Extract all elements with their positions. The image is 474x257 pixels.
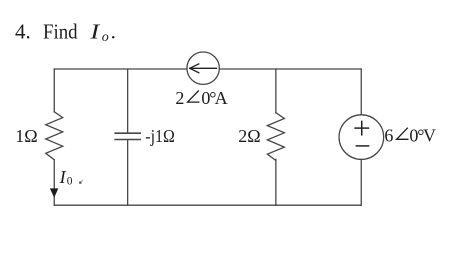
wire resistor R2 lower lead xyxy=(275,159,277,205)
svg-text:2: 2 xyxy=(175,88,184,108)
wire voltage source upper lead xyxy=(360,69,362,115)
wire top-right segment xyxy=(219,68,361,70)
wire resistor R2 upper lead xyxy=(275,69,277,113)
svg-text:1Ω: 1Ω xyxy=(15,126,37,146)
wire left branch lower lead xyxy=(53,160,55,205)
voltage source minus sign xyxy=(356,145,368,147)
svg-text:A: A xyxy=(215,88,228,108)
svg-text:V: V xyxy=(423,125,436,145)
svg-text:I: I xyxy=(89,19,100,43)
svg-text:o: o xyxy=(102,30,109,45)
current source I1 arrow xyxy=(190,67,217,69)
svg-text:4.: 4. xyxy=(15,19,31,43)
svg-text:I: I xyxy=(59,167,67,187)
current arrow I0 (filled) xyxy=(51,189,58,197)
svg-text:Find: Find xyxy=(43,19,78,43)
svg-text:-j1Ω: -j1Ω xyxy=(145,126,175,146)
svg-text:.: . xyxy=(111,19,116,43)
wire capacitor lower lead xyxy=(127,140,129,205)
resistor R2 2ohm zigzag xyxy=(267,113,284,161)
wire top-left segment xyxy=(54,68,187,70)
svg-text:2Ω: 2Ω xyxy=(238,126,260,146)
voltage source V1 circle xyxy=(339,115,384,160)
wire left branch upper lead xyxy=(53,69,55,112)
wire capacitor upper lead xyxy=(127,69,129,133)
capacitor C1 -j1ohm plates xyxy=(115,132,140,134)
wire voltage source lower lead xyxy=(360,159,362,205)
wire bottom xyxy=(54,204,361,206)
current source I1 circle xyxy=(187,52,219,84)
resistor R1 1ohm zigzag xyxy=(46,112,63,160)
voltage source plus sign xyxy=(355,127,368,129)
stray tick mark xyxy=(79,181,82,184)
svg-text:0: 0 xyxy=(67,176,73,188)
svg-text:6: 6 xyxy=(384,125,393,145)
